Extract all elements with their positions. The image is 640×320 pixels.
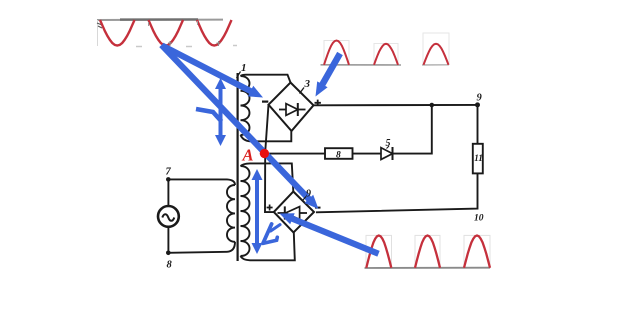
minus terminal of bridge 3 <box>262 100 268 102</box>
bridge rectifier 9 (diamond) <box>274 192 314 233</box>
annotation arrow: from waveform W1 to bridge 3 minus input <box>162 46 252 93</box>
wire: terminal 9 down to resistor 11 <box>477 105 479 144</box>
annotation arrow: from waveform W2 to bridge 3 plus <box>321 54 340 87</box>
terminal 7 dot <box>166 177 171 182</box>
label 9 (bridge designator) <box>303 189 311 201</box>
svg-text:A: A <box>242 146 254 165</box>
diode inside bridge 3 <box>279 103 306 116</box>
plus terminal of bridge 3 <box>315 100 321 106</box>
svg-text:3: 3 <box>304 78 311 90</box>
wire: node A to resistor 8 <box>265 153 325 155</box>
resistor 11 <box>473 144 483 174</box>
label 1 (winding designator) <box>237 62 247 78</box>
svg-text:9: 9 <box>306 189 311 200</box>
wire: terminal 8 to primary winding bottom <box>168 242 235 253</box>
svg-text:8: 8 <box>336 150 341 160</box>
svg-text:11: 11 <box>474 153 483 163</box>
svg-text:9: 9 <box>477 93 483 104</box>
annotation label L1 (blue, hand-drawn) <box>263 224 280 243</box>
label 3 (bridge designator) <box>300 78 311 94</box>
AC source G1 <box>158 206 179 227</box>
annotation arrow: vertical double-headed beside upper winding <box>215 78 226 89</box>
primary winding <box>227 185 235 242</box>
annotation arrow: long, from waveform W1 through node A to bridge 9 minus <box>162 45 311 200</box>
plus terminal of bridge 9 <box>267 205 273 211</box>
resistor 8 <box>325 148 353 159</box>
waveform plot W3: rectified half-waves, bottom-right <box>365 235 491 268</box>
wire: AC source down to terminal 8 <box>167 227 169 253</box>
annotation arrow: from waveform W3 to bridge 9 <box>291 218 379 254</box>
annotation arrow: vertical double-headed along lower winding <box>252 169 263 180</box>
diode inside bridge 9 (pointing left) <box>278 206 308 219</box>
wire: bridge 3 minus output down to node A and on to bridge 9 plus input <box>265 105 274 212</box>
wire: lower winding top to bridge 9 top vertex <box>241 163 294 191</box>
terminal 9 dot <box>475 102 480 107</box>
transformer core <box>237 73 239 261</box>
wire: lower winding bottom to bridge 9 bottom vertex <box>241 233 295 261</box>
waveform plot W2: rectified half-waves, top-middle <box>321 33 450 65</box>
wire: upper winding top to bridge 3 top vertex <box>241 75 291 83</box>
wire: terminal 7 to primary winding top <box>168 179 235 185</box>
terminal 8 dot <box>166 251 171 256</box>
svg-text:8: 8 <box>167 260 173 271</box>
wire: bridge 3 plus output to terminal 9 <box>314 104 478 106</box>
winding 1: upper secondary winding <box>241 76 250 135</box>
annotation tick mark (blue) left of transformer <box>196 109 222 122</box>
wire: resistor 8 to diode 5 <box>353 153 382 155</box>
svg-text:10: 10 <box>474 214 484 224</box>
wire: terminal 7 down to AC source <box>167 179 169 206</box>
wire: upper winding bottom to bridge 3 bottom vertex <box>241 131 292 141</box>
junction dot on top rail <box>430 103 435 108</box>
winding L1: lower secondary winding <box>241 166 250 256</box>
diode 5 <box>381 147 393 160</box>
svg-text:7: 7 <box>166 167 172 178</box>
wire: diode 5 right, up to top rail <box>393 105 432 154</box>
wire: resistor 11 down to terminal 10 and left to bridge 9 minus <box>316 173 478 212</box>
minus terminal of bridge 9 <box>315 207 321 209</box>
node A junction dot <box>260 149 269 158</box>
waveform plot W1: input voltage (negative half-waves), top-left <box>97 19 237 46</box>
label 5 (diode designator) <box>386 138 391 149</box>
bridge rectifier 3 (diamond) <box>269 83 314 132</box>
svg-text:1: 1 <box>241 62 247 74</box>
